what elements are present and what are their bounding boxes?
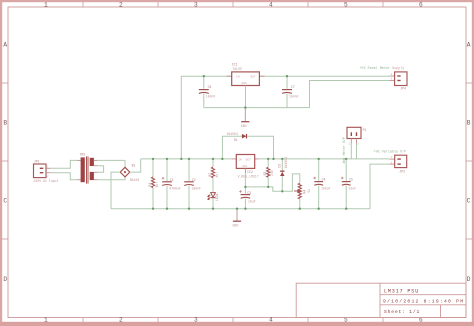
diode D2	[280, 159, 284, 191]
svg-text:R3: R3	[263, 171, 267, 175]
junction dots top rail	[152, 158, 224, 160]
voltage regulator IC1 78L05	[227, 72, 265, 86]
svg-text:C5: C5	[349, 178, 353, 182]
svg-text:GND: GND	[233, 224, 239, 228]
capacitor C3	[239, 187, 250, 209]
wire JP1 pin1 to transformer primary	[51, 160, 77, 168]
svg-text:C6: C6	[208, 85, 212, 89]
resistor R3	[267, 159, 270, 187]
junction IC1 gnd	[244, 106, 246, 108]
svg-text:TR2: TR2	[80, 152, 86, 156]
wire riser from main rail to regulator input	[181, 76, 231, 159]
svg-text:C4: C4	[322, 178, 326, 182]
ground GND (5V section)	[241, 108, 250, 128]
wire ADJ net jog to pot	[245, 174, 299, 191]
svg-text:100uF: 100uF	[321, 186, 331, 190]
bridge rectifier B1	[120, 167, 130, 177]
svg-text:GND: GND	[242, 82, 247, 85]
svg-text:B: B	[467, 120, 471, 127]
svg-text:R4: R4	[302, 190, 306, 194]
wire ADJ pin down	[244, 173, 246, 187]
svg-text:JP1: JP1	[34, 160, 40, 164]
junction C7 top	[286, 75, 288, 77]
wire gnd rail of 5V section	[204, 107, 310, 109]
svg-text:D: D	[467, 276, 471, 283]
svg-text:SB160: SB160	[130, 178, 140, 182]
wire secondary bottom to bridge AC2	[98, 177, 125, 180]
svg-text:9/10/2012 8:19:40 PM: 9/10/2012 8:19:40 PM	[383, 299, 464, 305]
svg-text:4: 4	[269, 316, 273, 323]
connector JP1 230V AC input	[34, 164, 51, 178]
svg-text:240: 240	[270, 170, 274, 176]
junction C6 top	[203, 75, 205, 77]
wire ground rail	[111, 208, 370, 210]
regulator IC2 LM317	[232, 155, 260, 174]
svg-text:ADJ: ADJ	[242, 165, 247, 168]
wire regulator output to JP4 pin1	[260, 75, 390, 77]
wire P1 pin1 to output rail	[350, 144, 352, 159]
wire P1 pin2 to output rail	[356, 144, 358, 159]
svg-text:22uF: 22uF	[349, 186, 357, 190]
wire bridge minus to gnd rail	[111, 172, 120, 209]
svg-text:C: C	[3, 198, 7, 205]
svg-text:R1: R1	[148, 183, 152, 187]
svg-text:3: 3	[194, 316, 198, 323]
svg-text:2: 2	[119, 316, 123, 323]
svg-text:4: 4	[269, 1, 273, 8]
svg-text:OUT: OUT	[246, 159, 251, 162]
svg-text:D2: D2	[278, 164, 282, 168]
wire secondary series link	[98, 166, 104, 173]
capacitor C2	[184, 159, 194, 209]
svg-text:2: 2	[119, 1, 123, 8]
LED1	[208, 193, 215, 209]
svg-text:Sheet: 1/1: Sheet: 1/1	[384, 309, 420, 315]
svg-text:OUT: OUT	[251, 76, 256, 79]
title block	[296, 283, 466, 317]
svg-text:C1: C1	[170, 178, 174, 182]
svg-text:JP2: JP2	[399, 170, 405, 174]
svg-text:LM317 PSU: LM317 PSU	[384, 288, 419, 294]
svg-text:B: B	[3, 120, 7, 127]
svg-text:5: 5	[344, 1, 348, 8]
wire bridge plus to positive rail	[130, 159, 141, 172]
svg-text:100nF: 100nF	[289, 95, 299, 99]
capacitor C6	[199, 76, 209, 107]
wire secondary top to bridge AC1	[98, 160, 125, 167]
capacitor C4	[313, 159, 323, 209]
svg-text:78L05: 78L05	[232, 67, 242, 71]
connector JP4 panel meter supply	[390, 72, 408, 86]
svg-text:B1: B1	[132, 163, 136, 167]
svg-text:C3: C3	[247, 191, 251, 195]
junction dots output rail	[267, 158, 347, 160]
svg-text:10uF: 10uF	[248, 200, 256, 204]
svg-text:1: 1	[44, 1, 48, 8]
svg-text:GND: GND	[241, 124, 247, 128]
svg-text:1N4004: 1N4004	[226, 132, 238, 136]
svg-text:IN: IN	[238, 159, 242, 162]
svg-text:D1: D1	[234, 138, 238, 142]
svg-text:4700uF: 4700uF	[169, 187, 181, 191]
svg-text:JP4: JP4	[400, 87, 406, 91]
junction dots ADJ net	[244, 186, 283, 193]
svg-text:230V AC Input: 230V AC Input	[34, 179, 59, 183]
svg-text:D: D	[3, 276, 7, 283]
resistor R1	[151, 159, 154, 209]
capacitor C7	[282, 76, 292, 107]
wire JP1 pin2 to transformer primary	[51, 173, 77, 180]
svg-text:3: 3	[194, 1, 198, 8]
svg-text:C2: C2	[192, 178, 196, 182]
wire unregulated positive rail	[141, 158, 232, 160]
svg-text:1: 1	[44, 316, 48, 323]
svg-text:100nF: 100nF	[191, 187, 201, 191]
ground GND (main)	[233, 209, 242, 228]
svg-text:C: C	[467, 198, 471, 205]
svg-text:P1: P1	[363, 128, 367, 132]
svg-text:6: 6	[419, 1, 423, 8]
wire IC1 gnd pin down	[245, 86, 247, 108]
svg-text:C7: C7	[291, 85, 295, 89]
svg-text:V_REG_LM317: V_REG_LM317	[238, 174, 259, 178]
wire regulated output rail	[259, 158, 389, 160]
potentiometer R4	[294, 183, 301, 209]
junction dots ground rail	[152, 208, 348, 210]
svg-text:100nF: 100nF	[206, 95, 216, 99]
svg-text:LED1: LED1	[215, 193, 219, 201]
svg-text:4k7: 4k7	[215, 172, 219, 178]
transformer TR2	[77, 156, 98, 183]
svg-text:R2: R2	[208, 173, 212, 177]
capacitor C1	[162, 159, 172, 209]
connector JP2 variable output	[390, 155, 407, 167]
diode D1 across regulator	[222, 134, 273, 159]
svg-text:4k7: 4k7	[155, 182, 159, 188]
svg-text:1N4004: 1N4004	[284, 157, 288, 169]
wire JP2 pin2 to ground rail	[370, 164, 390, 209]
svg-text:A: A	[3, 42, 7, 49]
wire riser to JP4 pin2	[310, 81, 390, 108]
capacitor C5	[341, 159, 351, 209]
svg-text:+VE Variable O/P: +VE Variable O/P	[374, 150, 407, 155]
svg-text:IN: IN	[236, 76, 240, 79]
svg-text:A: A	[467, 42, 471, 49]
svg-text:+5V Panel Meter Supply: +5V Panel Meter Supply	[360, 66, 405, 71]
resistor R2	[211, 159, 214, 192]
svg-text:5k: 5k	[307, 189, 311, 193]
connector P1 amp meter	[347, 127, 361, 143]
